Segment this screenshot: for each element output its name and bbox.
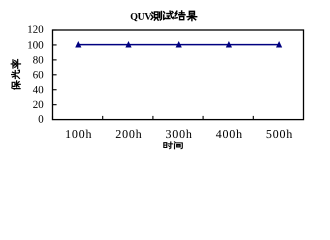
chart title "QUV测试结果" <box>131 11 197 21</box>
x-axis label 300h <box>166 130 192 138</box>
x-axis tick 5 <box>252 116 254 120</box>
y-axis label 60 <box>33 71 43 78</box>
x-axis label 400h <box>216 130 242 138</box>
y-axis tick 100 <box>53 44 57 46</box>
data marker 200h (triangle) <box>125 41 131 48</box>
x-axis label 500h <box>267 130 293 138</box>
y-axis label 80 <box>33 56 43 63</box>
plot area border / axes <box>53 30 304 120</box>
x-axis title "时间" <box>164 142 182 149</box>
data marker 400h (triangle) <box>226 41 232 48</box>
y-axis label 100 <box>28 41 43 48</box>
x-axis tick 1 <box>52 116 54 120</box>
y-axis label 40 <box>33 86 43 93</box>
x-axis tick 4 <box>202 116 204 120</box>
x-axis label 100h <box>66 130 91 138</box>
y-axis tick 60 <box>53 74 57 76</box>
y-axis title "保光率" (rotated 90° CCW, reads bottom-to-top) <box>11 60 20 90</box>
y-axis label 20 <box>33 101 43 108</box>
data series line (value 100 at each category) <box>78 44 279 46</box>
data marker 300h (triangle) <box>176 41 182 48</box>
x-axis tick 2 <box>102 116 104 120</box>
y-axis tick 40 <box>53 89 57 91</box>
y-axis tick 120 <box>53 29 57 31</box>
y-axis tick 20 <box>53 104 57 106</box>
y-axis tick 80 <box>53 59 57 61</box>
data marker 100h (triangle) <box>75 41 81 48</box>
x-axis label 200h <box>116 130 142 138</box>
y-axis label 0 <box>39 115 44 122</box>
y-axis label 120 <box>28 25 43 32</box>
data marker 500h (triangle) <box>276 41 282 48</box>
x-axis tick 3 <box>152 116 154 120</box>
